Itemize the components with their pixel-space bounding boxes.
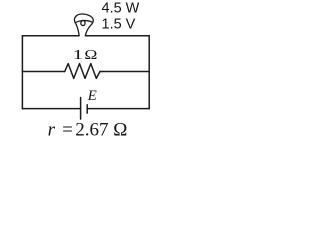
battery E short plate bbox=[86, 105, 88, 113]
wire: left edge bbox=[21, 36, 23, 109]
svg-text:E: E bbox=[87, 88, 97, 104]
lamp glass collar arc bbox=[75, 21, 91, 23]
wire: right edge bbox=[148, 36, 150, 109]
resistor R 1 ohm zigzag bbox=[65, 64, 100, 79]
lamp bulb glass outline with neck leads bbox=[74, 14, 93, 36]
wire: bottom rail right segment bbox=[87, 108, 149, 110]
wire: middle rail right segment bbox=[100, 71, 149, 73]
battery E long plate bbox=[80, 98, 82, 120]
svg-text:4.5 W: 4.5 W bbox=[102, 1, 140, 17]
wire: top rail right segment bbox=[85, 35, 149, 37]
svg-text:1: 1 bbox=[73, 48, 84, 63]
svg-text:r = 2.67 Ω: r = 2.67 Ω bbox=[48, 119, 128, 140]
wire: top rail left segment bbox=[22, 35, 79, 37]
lamp filament loop bbox=[81, 20, 85, 25]
wire: middle rail left segment bbox=[22, 71, 64, 73]
svg-text:Ω: Ω bbox=[84, 48, 97, 63]
wire: bottom rail left segment bbox=[22, 108, 80, 110]
svg-text:1.5 V: 1.5 V bbox=[102, 16, 136, 32]
